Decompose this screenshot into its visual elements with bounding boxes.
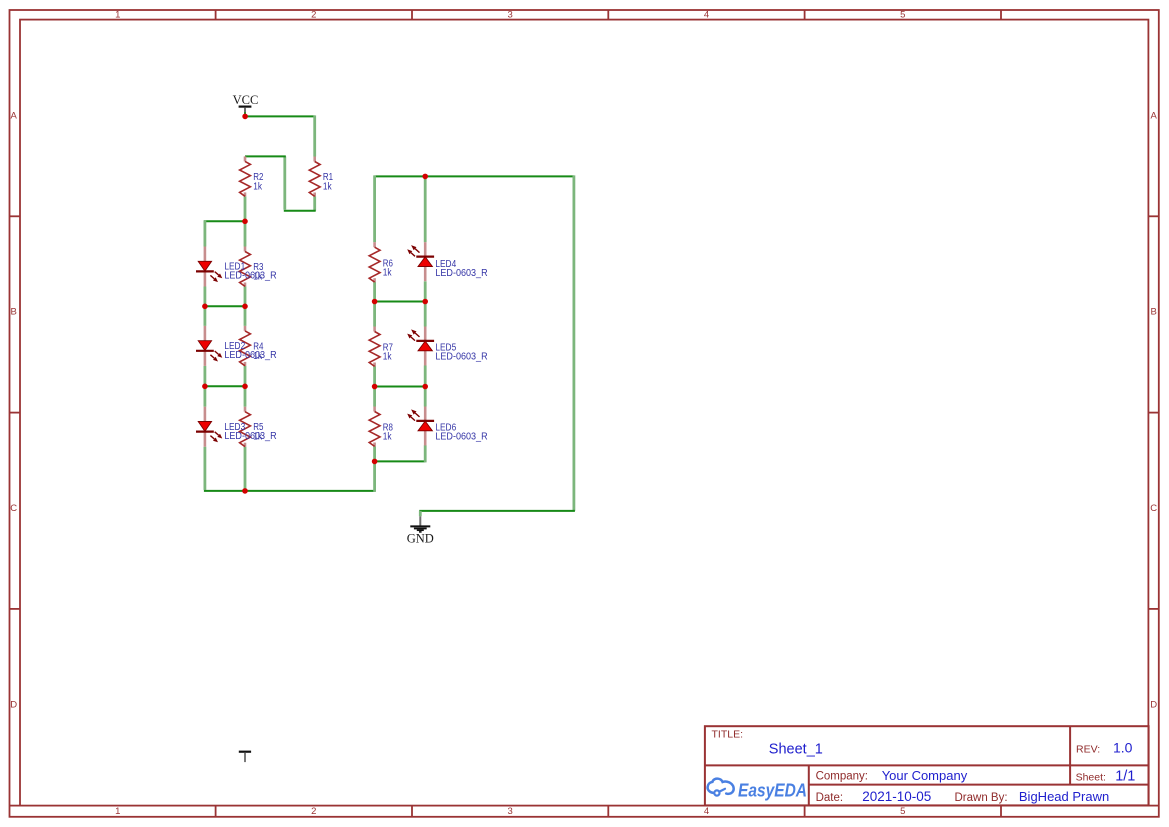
LED LED2 (LED-0603_R, cathode down) bbox=[196, 326, 277, 366]
svg-text:VCC: VCC bbox=[233, 93, 259, 107]
svg-text:1k: 1k bbox=[253, 181, 263, 192]
wire down to R7 bbox=[373, 302, 376, 327]
svg-text:4: 4 bbox=[704, 10, 709, 21]
wire LED4 bottom bbox=[424, 281, 427, 302]
wire row node C (horizontal) bbox=[205, 385, 245, 387]
svg-text:2: 2 bbox=[311, 10, 316, 21]
wire R4 bottom bbox=[244, 366, 247, 387]
LED LED1 (LED-0603_R, cathode down) bbox=[196, 247, 277, 287]
svg-text:GND: GND bbox=[407, 532, 434, 546]
svg-text:1k: 1k bbox=[383, 432, 393, 443]
wire down to LED5 bbox=[424, 302, 427, 327]
unconnected net flag (T shape) near bottom bbox=[239, 752, 251, 762]
title block outline bbox=[705, 726, 1149, 805]
svg-text:5: 5 bbox=[900, 10, 905, 21]
wire top rail (horizontal) bbox=[375, 175, 574, 177]
wire node to LED6 bottom (horizontal) bbox=[375, 460, 426, 462]
wire LED3 bottom bbox=[203, 447, 206, 490]
wire row node B (horizontal) bbox=[205, 305, 245, 307]
node junction LED1/LED2 bbox=[202, 304, 208, 310]
wire row node (horizontal, middle col) bbox=[375, 301, 426, 303]
wire down to R4 bbox=[244, 306, 247, 326]
frame column ticks (bottom ruler) bbox=[215, 806, 217, 817]
node junction R7/R8 bbox=[372, 384, 378, 390]
svg-text:1: 1 bbox=[115, 806, 120, 817]
title block divider logo cell bbox=[808, 765, 810, 805]
wire VCC node to R1 top (horizontal) bbox=[245, 115, 315, 117]
wire jog bottom horizontal bbox=[284, 210, 316, 212]
node junction LED2/LED3 bbox=[202, 384, 208, 390]
svg-text:1k: 1k bbox=[383, 352, 393, 363]
wire down to R6 bbox=[373, 175, 376, 242]
node junction LED5/LED6 bbox=[422, 384, 428, 390]
wire R5 bottom bbox=[244, 447, 247, 490]
svg-text:LED-0603_R: LED-0603_R bbox=[435, 432, 487, 443]
wire down to R3 bbox=[244, 221, 247, 246]
frame row ticks (left ruler) bbox=[10, 215, 21, 217]
wire node row to LED1 branch bbox=[204, 220, 245, 222]
resistor R5 (1k) bbox=[240, 407, 264, 447]
wire R1 bottom down bbox=[313, 196, 316, 210]
svg-text:4: 4 bbox=[704, 806, 709, 817]
svg-text:A: A bbox=[1151, 110, 1158, 121]
node junction R4/R5 bbox=[242, 384, 248, 390]
LED LED5 (LED-0603_R, cathode up) bbox=[407, 327, 487, 366]
svg-text:3: 3 bbox=[508, 10, 513, 21]
svg-text:1k: 1k bbox=[383, 268, 393, 279]
resistor R3 (1k) bbox=[240, 247, 264, 287]
wire down to LED6 bbox=[424, 387, 427, 407]
svg-text:B: B bbox=[1151, 307, 1157, 318]
wire R3 bottom bbox=[244, 287, 247, 308]
wire GND stub bbox=[419, 511, 422, 516]
svg-text:A: A bbox=[11, 110, 18, 121]
node junction R6/R7 bbox=[372, 299, 378, 305]
svg-text:LED-0603_R: LED-0603_R bbox=[435, 352, 487, 363]
svg-text:LED-0603_R: LED-0603_R bbox=[224, 350, 276, 361]
svg-text:EasyEDA: EasyEDA bbox=[738, 780, 807, 801]
ground GND bbox=[407, 516, 434, 545]
svg-text:Sheet:: Sheet: bbox=[1076, 771, 1106, 783]
LED LED4 (LED-0603_R, cathode up) bbox=[407, 242, 487, 281]
wire down to LED3 bbox=[203, 386, 206, 406]
title block divider REV/Sheet cells bbox=[1069, 726, 1071, 784]
node junction R8/bottom bbox=[372, 459, 378, 465]
frame column ticks (top ruler) bbox=[215, 10, 217, 20]
svg-text:TITLE:: TITLE: bbox=[712, 729, 744, 741]
wire down to R8 bbox=[373, 387, 376, 407]
svg-text:LED-0603_R: LED-0603_R bbox=[224, 431, 276, 442]
svg-text:Company:: Company: bbox=[816, 771, 868, 783]
resistor R4 (1k) bbox=[240, 326, 264, 366]
svg-text:Drawn By:: Drawn By: bbox=[955, 792, 1008, 804]
svg-text:C: C bbox=[10, 503, 17, 514]
svg-text:1.0: 1.0 bbox=[1113, 740, 1133, 756]
resistor R7 (1k) bbox=[369, 327, 393, 367]
wire LED1 bottom bbox=[203, 287, 206, 308]
svg-text:D: D bbox=[1150, 699, 1157, 710]
resistor R1 (1k) bbox=[309, 157, 333, 197]
node junction R3/R4 bbox=[242, 304, 248, 310]
resistor R6 (1k) bbox=[369, 242, 393, 282]
wire right rail down bbox=[573, 175, 576, 511]
wire bottom bus (horizontal) bbox=[204, 490, 375, 492]
svg-text:3: 3 bbox=[508, 806, 513, 817]
svg-text:Sheet_1: Sheet_1 bbox=[769, 741, 823, 757]
wire LED5 bottom bbox=[424, 366, 427, 388]
title block divider below TITLE row bbox=[705, 764, 1149, 766]
wire R2 bottom to node bbox=[244, 196, 247, 222]
wire R6 bottom bbox=[373, 281, 376, 302]
wire bottom bus up to node bbox=[373, 461, 376, 492]
svg-text:5: 5 bbox=[900, 806, 905, 817]
wire jog top horizontal to R2 bbox=[245, 155, 286, 157]
power flag VCC bbox=[233, 93, 259, 116]
svg-text:2: 2 bbox=[311, 806, 316, 817]
svg-text:LED-0603_R: LED-0603_R bbox=[224, 271, 276, 282]
node junction LED4/LED5 bbox=[422, 299, 428, 305]
frame row ticks (right ruler) bbox=[1148, 215, 1159, 217]
node junction bottom bus bbox=[242, 488, 248, 494]
svg-text:C: C bbox=[1150, 503, 1157, 514]
svg-text:REV:: REV: bbox=[1076, 743, 1100, 755]
svg-text:1: 1 bbox=[115, 10, 120, 21]
wire LED6 bottom bbox=[424, 445, 427, 462]
svg-text:1/1: 1/1 bbox=[1115, 768, 1135, 784]
wire row node 2 (horizontal, middle col) bbox=[375, 386, 426, 388]
node VCC junction bbox=[242, 114, 248, 120]
wire R8 bottom to node bbox=[373, 447, 376, 462]
LED LED6 (LED-0603_R, cathode up) bbox=[407, 407, 487, 446]
wire bottom to GND (horizontal) bbox=[419, 510, 575, 512]
svg-text:LED-0603_R: LED-0603_R bbox=[435, 268, 487, 279]
node junction R2/R3/LED1 bbox=[242, 219, 248, 225]
svg-text:D: D bbox=[10, 699, 17, 710]
wire down to LED4 bbox=[424, 176, 427, 242]
wire jog vertical bbox=[283, 156, 286, 209]
svg-text:1k: 1k bbox=[323, 181, 333, 192]
svg-text:B: B bbox=[11, 307, 17, 318]
node junction top rail/LED4 bbox=[422, 174, 428, 180]
EasyEDA logo cloud icon bbox=[708, 779, 734, 796]
wire LED2 bottom bbox=[203, 366, 206, 387]
wire down to R5 bbox=[244, 386, 247, 406]
frame band closures bottom corners bbox=[10, 805, 21, 807]
wire down to LED2 bbox=[203, 306, 206, 326]
resistor R2 (1k) bbox=[240, 156, 264, 196]
wire R7 bottom bbox=[373, 366, 376, 388]
svg-text:Your Company: Your Company bbox=[882, 768, 968, 783]
wire down to LED1 bbox=[203, 220, 206, 246]
svg-text:2021-10-05: 2021-10-05 bbox=[862, 789, 931, 804]
svg-text:Date:: Date: bbox=[816, 792, 844, 804]
wire down to R1 top bbox=[313, 115, 316, 156]
title block divider Company/Date bbox=[809, 784, 1149, 786]
resistor R8 (1k) bbox=[369, 407, 393, 447]
svg-text:BigHead Prawn: BigHead Prawn bbox=[1019, 789, 1109, 804]
LED LED3 (LED-0603_R, cathode down) bbox=[196, 407, 277, 447]
